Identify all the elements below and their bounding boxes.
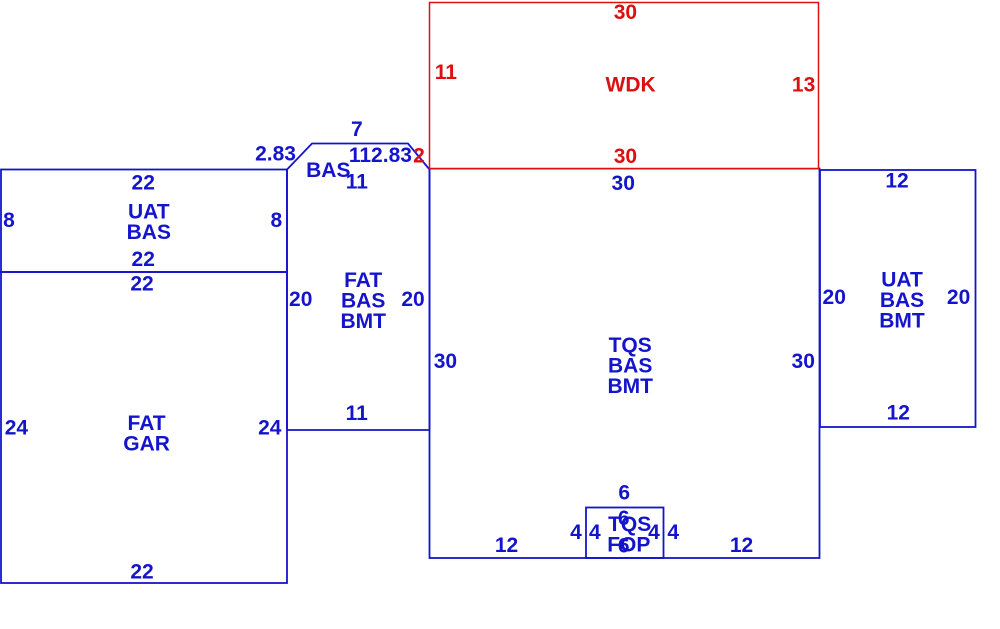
svg-text:30: 30	[792, 350, 815, 373]
svg-text:BMT: BMT	[607, 375, 653, 398]
svg-text:2: 2	[413, 145, 425, 168]
svg-text:24: 24	[5, 417, 29, 440]
svg-text:112.83: 112.83	[349, 144, 412, 167]
svg-text:2.83: 2.83	[255, 143, 296, 166]
area BAS trapezoid	[287, 144, 430, 170]
svg-text:BAS: BAS	[306, 159, 350, 182]
svg-text:BMT: BMT	[879, 310, 925, 333]
svg-text:8: 8	[3, 209, 15, 232]
svg-text:22: 22	[130, 273, 153, 296]
svg-text:11: 11	[435, 61, 458, 84]
area WDK outline (red)	[430, 3, 819, 169]
svg-text:12: 12	[730, 534, 753, 557]
wire FAT col right edge	[429, 170, 431, 431]
svg-text:8: 8	[270, 209, 282, 232]
svg-text:11: 11	[346, 171, 369, 194]
svg-text:20: 20	[823, 286, 846, 309]
svg-text:4: 4	[570, 521, 582, 544]
svg-text:6: 6	[618, 482, 630, 505]
svg-text:WDK: WDK	[606, 74, 656, 97]
svg-text:22: 22	[132, 248, 155, 271]
svg-text:12: 12	[495, 534, 518, 557]
svg-text:12: 12	[887, 402, 910, 425]
svg-text:24: 24	[258, 417, 282, 440]
svg-text:4: 4	[667, 521, 679, 544]
svg-text:BAS: BAS	[127, 221, 171, 244]
svg-text:20: 20	[401, 288, 424, 311]
area TQS BAS BMT outline	[430, 169, 820, 559]
area UAT BAS BMT outline (right)	[820, 170, 976, 427]
svg-text:7: 7	[351, 118, 363, 141]
area UAT BAS outline (left top)	[1, 170, 287, 273]
svg-text:4: 4	[589, 521, 601, 544]
svg-text:GAR: GAR	[123, 433, 170, 456]
svg-text:13: 13	[792, 74, 815, 97]
svg-text:11: 11	[346, 402, 369, 425]
svg-text:20: 20	[947, 286, 970, 309]
svg-text:20: 20	[289, 288, 312, 311]
svg-text:22: 22	[132, 172, 155, 195]
svg-text:30: 30	[614, 145, 637, 168]
svg-text:12: 12	[885, 170, 908, 193]
area TQS FOP box	[586, 508, 664, 559]
svg-text:30: 30	[614, 1, 637, 24]
svg-text:22: 22	[130, 561, 153, 584]
area FAT BAS BMT column outline	[287, 170, 430, 431]
area FAT GAR outline	[1, 272, 287, 583]
svg-text:30: 30	[434, 350, 457, 373]
svg-text:6: 6	[618, 535, 630, 558]
svg-text:30: 30	[612, 172, 635, 195]
svg-text:BMT: BMT	[340, 310, 386, 333]
